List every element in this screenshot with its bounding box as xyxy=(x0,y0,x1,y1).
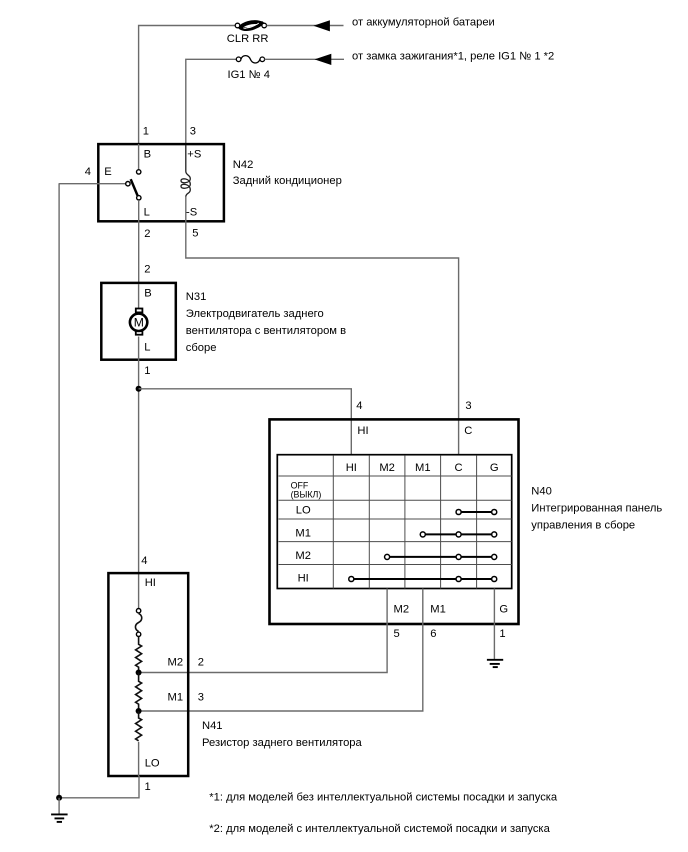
wire stub to ground xyxy=(58,798,60,814)
wire N40 pin 5 (M2) down and left to N41 M2 xyxy=(141,589,387,673)
svg-text:1: 1 xyxy=(145,781,151,793)
svg-text:CLR RR: CLR RR xyxy=(227,33,269,45)
coil L1 (+S to -S) in N42 xyxy=(181,145,190,197)
wire from N42 pin 3 up and right to fuse IG1 xyxy=(186,59,237,145)
svg-text:Задний кондиционер: Задний кондиционер xyxy=(233,175,342,187)
svg-text:M2: M2 xyxy=(394,604,410,616)
svg-text:M1: M1 xyxy=(295,528,311,540)
wire N40 pin 6 (M1) down and left to N41 M1 xyxy=(141,589,423,712)
svg-text:от аккумуляторной батареи: от аккумуляторной батареи xyxy=(352,17,495,29)
connector box N42 xyxy=(98,144,224,221)
svg-text:Электродвигатель заднего: Электродвигатель заднего xyxy=(186,308,324,320)
svg-text:C: C xyxy=(455,462,463,474)
svg-text:HI: HI xyxy=(298,573,309,585)
wire from junction to N40 pin 4 (HI) xyxy=(139,389,352,455)
svg-text:6: 6 xyxy=(430,628,436,640)
svg-text:*1: для моделей без интеллекту: *1: для моделей без интеллектуальной сис… xyxy=(209,792,558,804)
svg-text:4: 4 xyxy=(141,555,147,567)
junction node M1 xyxy=(136,708,142,714)
svg-text:N31: N31 xyxy=(186,291,207,303)
svg-text:M: M xyxy=(134,316,144,330)
svg-text:*2: для моделей с интеллектуал: *2: для моделей с интеллектуальной систе… xyxy=(209,823,550,835)
contact bar LO row (C-G) xyxy=(456,509,497,514)
wire E from left rail into switch pivot xyxy=(59,183,126,185)
svg-text:5: 5 xyxy=(394,628,400,640)
svg-text:3: 3 xyxy=(465,400,471,412)
wire from N42 pin 1 up and right to fuse CLR RR xyxy=(139,26,236,146)
contact bar HI row (HI-C-G) xyxy=(349,576,497,581)
left ground rail wire (from N42 E) xyxy=(58,183,60,798)
ground bottom left xyxy=(51,814,68,822)
wire from switch to pin 2 and down to N31 pin 2 xyxy=(138,200,140,284)
svg-text:LO: LO xyxy=(296,505,311,517)
wire N40 pin 1 (G) down to ground xyxy=(493,589,495,660)
ground under N40 xyxy=(487,660,503,667)
wire motor to pin 1 and down to N41 pin 4 xyxy=(138,337,140,609)
svg-text:L: L xyxy=(144,207,150,219)
fuse CLR RR (fusible link) xyxy=(235,22,266,29)
svg-text:IG1 № 4: IG1 № 4 xyxy=(228,69,270,81)
svg-text:1: 1 xyxy=(143,126,149,138)
svg-text:HI: HI xyxy=(145,577,156,589)
svg-text:G: G xyxy=(490,462,499,474)
svg-text:HI: HI xyxy=(346,462,357,474)
svg-text:E: E xyxy=(104,166,111,178)
svg-text:вентилятора с вентилятором в: вентилятора с вентилятором в xyxy=(186,325,346,337)
motor box N31 xyxy=(101,283,176,360)
svg-text:G: G xyxy=(499,604,508,616)
svg-text:3: 3 xyxy=(198,692,204,704)
fuse IG1 № 4 xyxy=(236,56,264,63)
motor M (N31) xyxy=(130,309,147,335)
svg-text:HI: HI xyxy=(357,425,368,437)
svg-text:5: 5 xyxy=(192,228,198,240)
svg-text:4: 4 xyxy=(356,400,362,412)
junction node below N31 xyxy=(136,386,142,392)
resistor segment HI-M2 xyxy=(136,637,142,673)
thermal fuse in N41 xyxy=(135,609,141,637)
resistor segment M1-LO xyxy=(136,711,142,741)
wire from fuse IG1 to arrow xyxy=(265,58,345,60)
arrow from ignition feed xyxy=(315,54,332,65)
contact bar M2 row (M2-C-G) xyxy=(385,554,497,559)
svg-text:B: B xyxy=(144,288,151,300)
wire B into motor xyxy=(138,284,140,308)
wire from fuse CLR RR to arrow xyxy=(267,25,344,27)
control panel box N40 xyxy=(270,419,519,624)
svg-text:1: 1 xyxy=(144,365,150,377)
svg-text:Интегрированная панель: Интегрированная панель xyxy=(531,503,662,515)
svg-text:+S: +S xyxy=(187,149,201,161)
svg-text:N41: N41 xyxy=(202,720,223,732)
table column lines xyxy=(333,455,476,588)
svg-text:(ВЫКЛ): (ВЫКЛ) xyxy=(291,489,322,499)
svg-text:M2: M2 xyxy=(379,462,395,474)
svg-text:Резистор заднего вентилятора: Резистор заднего вентилятора xyxy=(202,737,363,749)
wire N41 pin 1 to ground rail xyxy=(59,776,139,798)
svg-text:L: L xyxy=(144,342,150,354)
svg-text:сборе: сборе xyxy=(186,342,217,354)
svg-text:M2: M2 xyxy=(295,550,311,562)
svg-text:3: 3 xyxy=(190,126,196,138)
contact bar M1 row (M1-C-G) xyxy=(420,532,497,537)
resistor segment M2-M1 xyxy=(136,673,142,712)
table row lines xyxy=(279,476,512,565)
svg-text:от замка зажигания*1, реле IG1: от замка зажигания*1, реле IG1 № 1 *2 xyxy=(352,51,554,63)
svg-text:B: B xyxy=(144,149,151,161)
switch SW1 in N42 xyxy=(126,170,141,200)
junction node at ground xyxy=(56,795,62,801)
svg-text:2: 2 xyxy=(198,656,204,668)
wire from N42 pin 5 right and down to N40 pin 3 (C) xyxy=(186,197,459,456)
svg-text:-S: -S xyxy=(186,207,197,219)
svg-text:4: 4 xyxy=(85,166,91,178)
svg-text:N40: N40 xyxy=(531,486,552,498)
svg-text:M2: M2 xyxy=(168,656,184,668)
junction node M2 xyxy=(136,670,142,676)
svg-text:LO: LO xyxy=(145,758,160,770)
arrow from battery feed xyxy=(313,20,330,31)
svg-text:1: 1 xyxy=(499,628,505,640)
svg-text:M1: M1 xyxy=(430,604,446,616)
svg-text:N42: N42 xyxy=(233,159,254,171)
svg-text:M1: M1 xyxy=(415,462,431,474)
svg-text:2: 2 xyxy=(144,228,150,240)
wire B stub to switch contact xyxy=(138,144,140,169)
resistor box N41 xyxy=(108,573,188,776)
switch table frame (N40) xyxy=(277,455,511,589)
svg-text:M1: M1 xyxy=(168,692,184,704)
svg-text:управления в сборе: управления в сборе xyxy=(531,520,635,532)
svg-text:C: C xyxy=(464,425,472,437)
svg-text:2: 2 xyxy=(144,263,150,275)
